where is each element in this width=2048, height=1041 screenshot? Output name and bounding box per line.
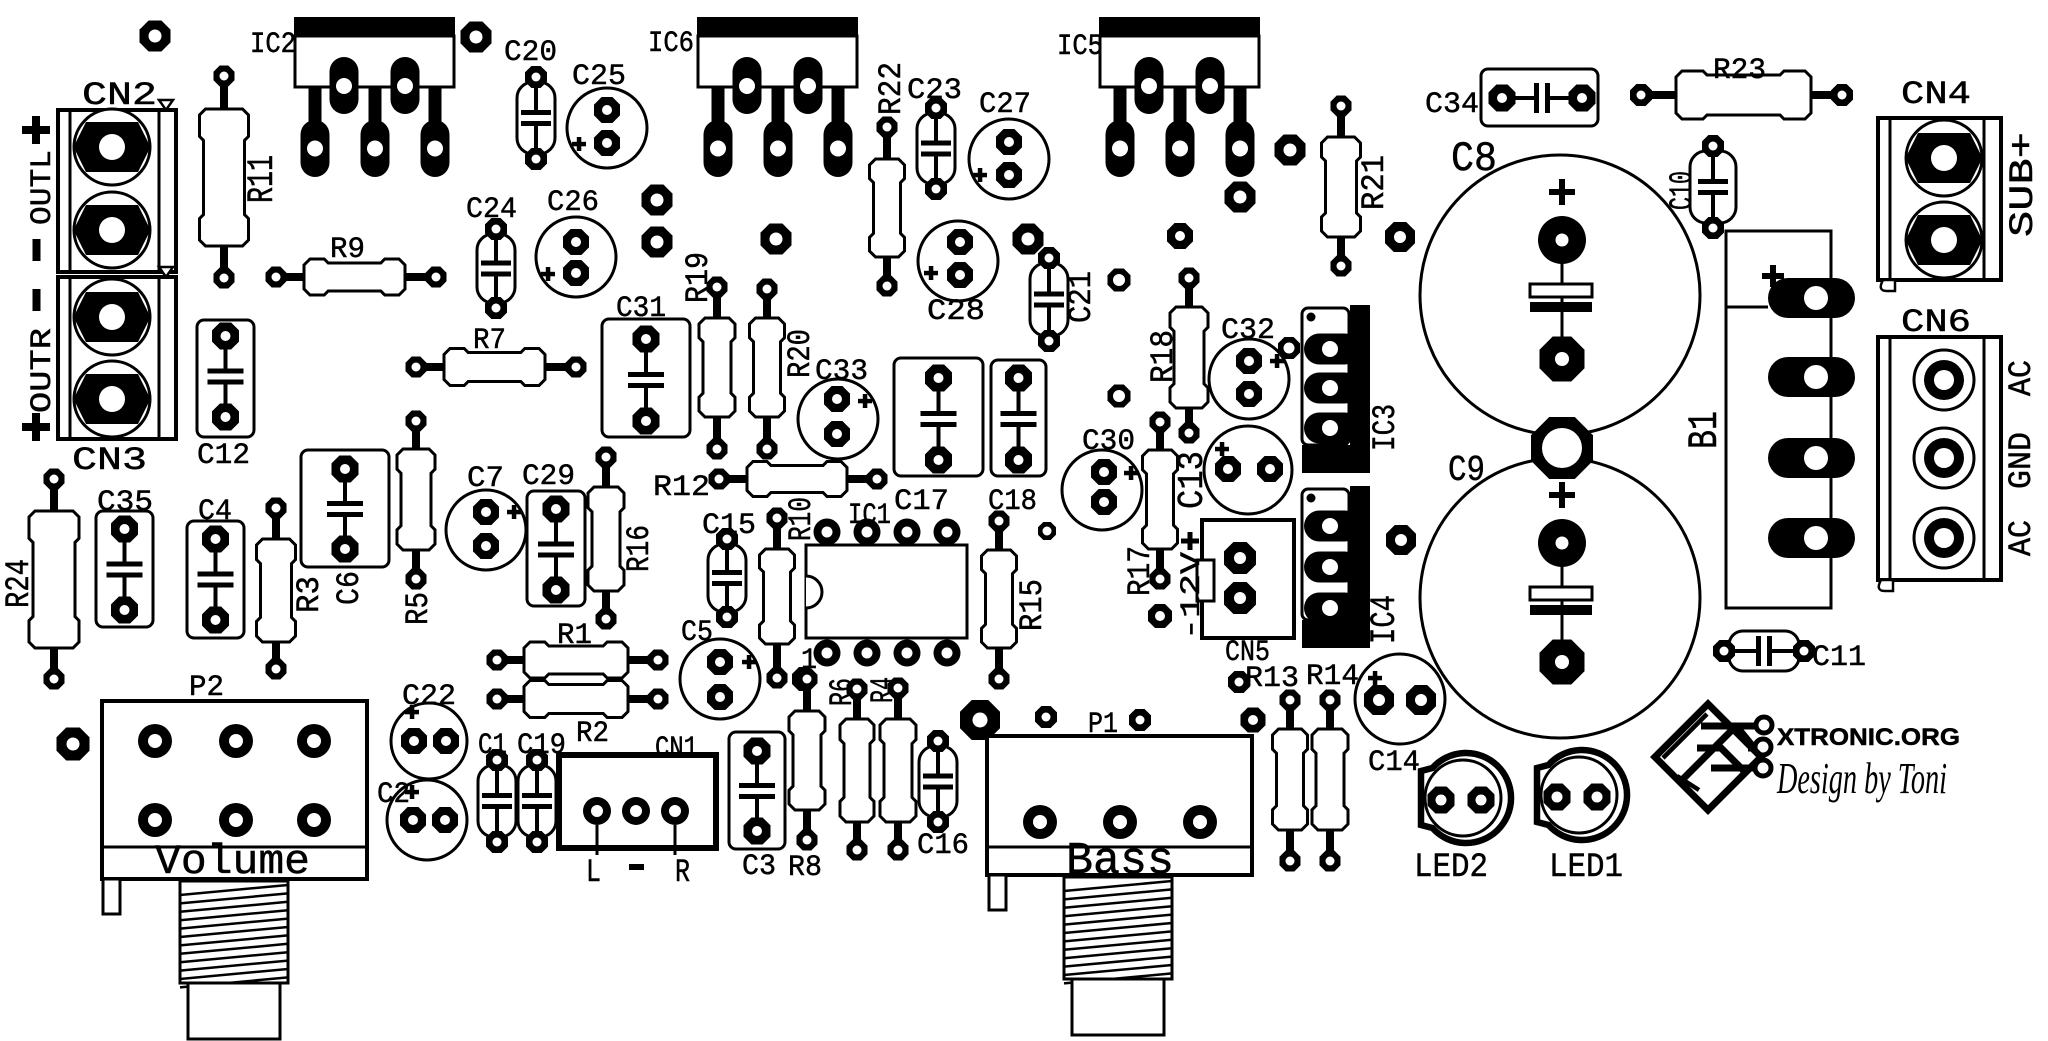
op-amp IC1 body [806, 545, 967, 638]
label R3 [291, 576, 328, 613]
svg-text:R15: R15 [1014, 579, 1051, 631]
svg-text:R5: R5 [400, 592, 437, 625]
terminal block CN6 body [1878, 337, 2001, 591]
label R10 [783, 497, 820, 541]
terminal block CN4 body [1878, 118, 2001, 291]
IC6 pads pins 2 4 [733, 57, 823, 114]
CN2 screw terminal pad 2 [74, 192, 151, 268]
resistor R15 [982, 511, 1017, 690]
svg-text:C28: C28 [927, 295, 985, 329]
xtronic logo emblem [1655, 704, 1772, 810]
pad below IC6 lower [642, 227, 673, 258]
svg-text:R11: R11 [242, 155, 284, 203]
IC4 pad pin 2 [1304, 552, 1360, 583]
svg-text:LED2: LED2 [1414, 849, 1488, 887]
P1 pad 2 [1103, 805, 1137, 839]
capacitor C27 [969, 119, 1049, 199]
capacitor C1 [478, 749, 516, 853]
svg-text:C35: C35 [97, 486, 153, 520]
pad left of C21 [1013, 224, 1044, 255]
svg-text:CN1: CN1 [655, 732, 698, 766]
svg-text:P2: P2 [189, 671, 224, 705]
polarity + for OUTL [22, 126, 50, 134]
C9 negative pad [1561, 615, 1564, 662]
CN2 polarity mark [159, 100, 173, 110]
IC1 pad pin 4 (bottom row) [934, 640, 961, 667]
CN6 screw terminal pad 2 (GND) [1914, 428, 1974, 488]
pad right of IC2 [461, 22, 492, 53]
svg-text:C20: C20 [504, 36, 557, 70]
power amplifier IC IC2 heatsink bar [294, 17, 455, 36]
CN6 screw terminal pad 1 (AC) [1914, 350, 1974, 410]
LED LED1 outline [1537, 750, 1627, 840]
pad below IC6 upper [642, 185, 673, 216]
voltage regulator IC3 body [1302, 305, 1370, 473]
svg-text:R22: R22 [873, 62, 910, 115]
B1 pad 3 [1768, 438, 1855, 478]
P1 shaft [1072, 979, 1164, 1035]
connector CN1 body [559, 755, 716, 848]
capacitor C3 [729, 732, 785, 849]
CN1 pad R [674, 825, 677, 855]
svg-text:R24: R24 [1, 559, 39, 608]
resistor R4 [880, 678, 916, 861]
svg-text:P1: P1 [1088, 708, 1118, 742]
svg-text:IC2: IC2 [250, 28, 296, 62]
label R11 [242, 155, 284, 203]
svg-text:IC5: IC5 [1057, 30, 1103, 64]
svg-text:C17: C17 [894, 485, 949, 519]
IC1 pad pin 3 (bottom row) [894, 640, 921, 667]
power amplifier IC IC2 body [295, 36, 454, 87]
net label OUTR [26, 328, 60, 413]
IC1 pad pin 7 (top row) [854, 519, 881, 546]
svg-text:R3: R3 [291, 576, 328, 613]
P2 threaded bushing [180, 881, 288, 987]
polarity + for OUTR [22, 423, 50, 431]
label R19 [680, 252, 717, 303]
P2 shaft [188, 983, 280, 1039]
resistor R21 [1322, 96, 1361, 277]
IC2 pads pins 2 4 [330, 57, 420, 114]
terminal block CN3 body [58, 277, 176, 439]
potentiometer P2 body [102, 701, 367, 879]
svg-text:R21: R21 [1356, 155, 1393, 210]
label R17 [1122, 546, 1159, 596]
svg-text:C33: C33 [815, 355, 868, 389]
IC1 pad pin 6 (top row) [894, 519, 921, 546]
P1 pad 3 [1183, 805, 1217, 839]
svg-text:C32: C32 [1221, 314, 1275, 348]
IC3 pad pin 2 [1304, 373, 1360, 404]
net label GND [2003, 432, 2040, 489]
net label OUTL [26, 150, 60, 225]
pad right of P1 [1241, 708, 1266, 733]
capacitor C17 [894, 358, 983, 476]
IC1 pad pin 1 (bottom row) [814, 640, 841, 667]
IC5 pads pins 1 3 5 [1106, 120, 1255, 177]
pad below CN5 minus [1148, 604, 1172, 628]
CN1 pad - [622, 797, 650, 825]
label C21 [1063, 271, 1100, 323]
pad left of C9 [1386, 525, 1416, 555]
label R22 [873, 62, 910, 115]
label IC4 [1365, 595, 1405, 644]
IC5 pads pins 2 4 [1135, 57, 1225, 114]
resistor R14 [1312, 690, 1348, 872]
svg-text:C22: C22 [402, 680, 456, 714]
resistor R6 [840, 679, 874, 861]
svg-text:C29: C29 [522, 460, 575, 494]
svg-text:C6: C6 [331, 571, 368, 605]
IC1 pad pin 2 (bottom row) [854, 640, 881, 667]
resistor R12 [709, 462, 888, 497]
svg-text:C11: C11 [1812, 641, 1866, 675]
svg-text:C18: C18 [988, 485, 1037, 519]
resistor R18 [1170, 268, 1208, 444]
svg-text:R: R [675, 854, 690, 891]
CN2 screw terminal pad 1 [74, 109, 151, 185]
svg-text:R17: R17 [1122, 546, 1159, 596]
net label AC bottom [2003, 520, 2040, 556]
svg-text:L: L [586, 854, 601, 891]
svg-text:R23: R23 [1713, 54, 1766, 88]
B1 pad 2 [1768, 357, 1855, 397]
bridge rectifier B1 body [1726, 231, 1831, 608]
IC4 pad pin 1 [1304, 511, 1360, 542]
label IC3 [1367, 404, 1404, 451]
svg-text:C34: C34 [1425, 88, 1479, 122]
resistor R13 [1273, 690, 1308, 872]
C9 polarity stripe [1530, 587, 1592, 600]
C9 positive pad [1561, 543, 1564, 608]
capacitor C25 [567, 88, 647, 168]
C9 polarity + [1549, 492, 1575, 498]
resistor R7 [406, 349, 587, 386]
svg-text:CN4: CN4 [1901, 76, 1971, 113]
P2 pad 1 [138, 724, 172, 758]
CN1 pin label - [629, 864, 644, 870]
svg-text:IC1: IC1 [848, 499, 891, 533]
svg-text:C27: C27 [979, 88, 1031, 122]
CN1 pad L [596, 825, 599, 855]
potentiometer P1 body [987, 736, 1252, 875]
C8 positive pad [1561, 240, 1564, 305]
label C10 [1664, 171, 1701, 210]
svg-text:R18: R18 [1145, 330, 1182, 383]
filter capacitor C9 outline [1420, 458, 1700, 738]
resistor R22 [870, 117, 905, 297]
filter capacitor C8 outline [1420, 155, 1700, 435]
IC1 pad pin 8 (top row) [814, 519, 841, 546]
resistor R1 [487, 642, 669, 678]
label R16 [621, 525, 658, 572]
C8 polarity stripe [1530, 284, 1592, 297]
LED2 anode pad [1468, 787, 1495, 814]
svg-text:IC6: IC6 [648, 27, 694, 61]
pad below IC5 pin3 [1225, 182, 1256, 213]
svg-text:C14: C14 [1368, 746, 1420, 780]
P1 pad 1 [1023, 805, 1057, 839]
label R21 [1356, 155, 1393, 210]
svg-text:C3: C3 [742, 850, 776, 884]
CN6 screw terminal pad 3 (AC) [1914, 508, 1974, 568]
polarity + for CN5 [1181, 539, 1199, 544]
capacitor C12 [197, 320, 254, 437]
power amplifier IC IC6 body [698, 36, 857, 87]
svg-text:C9: C9 [1448, 450, 1485, 491]
svg-text:AC: AC [2003, 520, 2040, 556]
svg-text:R8: R8 [788, 851, 822, 885]
label R24 [1, 559, 39, 608]
capacitor C32 [1209, 339, 1289, 419]
resistor R8 [789, 669, 825, 851]
pad below IC1 pin1 [792, 667, 816, 691]
LED LED2 outline [1421, 753, 1511, 843]
resistor R5 [397, 411, 435, 590]
via at IC3 pin1 [1278, 337, 1300, 359]
pad below IC5 pin2 [1167, 223, 1193, 249]
svg-text:R2: R2 [576, 717, 609, 751]
capacitor C2 [387, 780, 467, 860]
svg-text:C1: C1 [478, 729, 507, 763]
resistor R10 [760, 508, 795, 689]
capacitor C10 [1690, 135, 1736, 239]
svg-text:C4: C4 [198, 495, 232, 529]
B1 polarity + [1762, 273, 1784, 279]
capacitor C29 [527, 491, 585, 606]
svg-text:-12V: -12V [1177, 552, 1208, 640]
P1 threaded bushing [1064, 877, 1172, 983]
svg-text:R4: R4 [865, 677, 902, 703]
B1 pad 1 [1768, 278, 1855, 318]
P2 pad 3 [297, 724, 331, 758]
mounting pad top-left [140, 21, 171, 52]
mounting pad bottom-left [57, 728, 90, 761]
capacitor C5 [680, 639, 760, 719]
svg-text:C21: C21 [1063, 271, 1100, 323]
pad left of C8 [1385, 222, 1415, 252]
CN3 screw terminal pad 1 [74, 279, 151, 355]
via right of C18 [1038, 522, 1056, 540]
CN4 screw terminal pad 2 [1906, 202, 1983, 278]
CN5 pad - pin [1224, 582, 1256, 614]
capacitor C6 [301, 450, 389, 567]
CN4 screw terminal pad 1 [1906, 120, 1983, 196]
svg-text:C30: C30 [1082, 425, 1135, 459]
IC4 pad pin 3 [1304, 593, 1360, 624]
P2 pad 5 [219, 803, 253, 837]
pad right of IC5 [1275, 135, 1306, 166]
resistor R9 [266, 259, 447, 295]
resistor R2 [487, 681, 669, 718]
resistor R19 [699, 277, 735, 460]
LED1 anode pad [1584, 784, 1611, 811]
LED1 cathode pad [1544, 784, 1571, 811]
svg-text:IC4: IC4 [1365, 595, 1405, 644]
C8 negative pad [1561, 312, 1564, 359]
resistor R16 [588, 447, 624, 630]
resistor R23 [1630, 71, 1853, 119]
svg-text:C23: C23 [907, 74, 962, 108]
capacitor C14 [1355, 654, 1445, 744]
svg-text:C16: C16 [917, 829, 969, 863]
capacitor C23 [917, 97, 955, 200]
IC2 pin stems [309, 86, 442, 124]
pad above P1 left [1035, 706, 1057, 728]
CN3 screw terminal pad 2 [74, 361, 151, 437]
pad below IC6 pin3 [761, 224, 792, 255]
svg-text:C26: C26 [547, 186, 599, 220]
svg-text:Design by Toni: Design by Toni [1776, 754, 1947, 803]
net label SUB+ [2005, 132, 2043, 237]
capacitor C13 [1204, 426, 1292, 514]
power amplifier IC IC6 heatsink bar [697, 17, 858, 36]
voltage regulator IC4 body [1302, 486, 1370, 648]
svg-text:R12: R12 [653, 471, 710, 505]
svg-text:CN2: CN2 [82, 77, 157, 114]
power amplifier IC IC5 body [1100, 36, 1259, 87]
capacitor C19 [518, 749, 556, 853]
svg-text:SUB+: SUB+ [2005, 132, 2043, 237]
via right of R18 [1108, 385, 1131, 408]
pad above P1 right [1129, 709, 1151, 731]
P1 mounting tab [989, 875, 1006, 910]
IC2 pads pins 1 3 5 [301, 120, 450, 177]
capacitor C22 [391, 703, 467, 779]
svg-text:C25: C25 [572, 60, 626, 94]
label B1 [1681, 411, 1729, 449]
LED2 cathode pad [1428, 787, 1455, 814]
net label -12V [1177, 552, 1208, 640]
svg-text:C31: C31 [616, 292, 666, 326]
svg-text:GND: GND [2003, 432, 2040, 489]
svg-text:OUTL: OUTL [26, 150, 60, 225]
resistor R11 [200, 66, 249, 289]
resistor R3 [257, 498, 296, 680]
pad left of P1 [960, 700, 1000, 740]
svg-text:CN3: CN3 [72, 442, 147, 479]
svg-text:R20: R20 [782, 329, 819, 378]
svg-text:C2: C2 [377, 778, 410, 812]
capacitor C15 [708, 528, 746, 628]
label R20 [782, 329, 819, 378]
svg-text:IC3: IC3 [1367, 404, 1404, 451]
IC5 pin stems [1114, 86, 1247, 124]
capacitor C28 [918, 221, 998, 301]
capacitor C18 [991, 360, 1046, 476]
capacitor C35 [96, 511, 153, 627]
central mounting hole pad [1531, 417, 1593, 479]
capacitor C34 [1481, 69, 1598, 126]
via above C17 [1108, 269, 1131, 292]
svg-text:R14: R14 [1306, 660, 1359, 694]
svg-text:C12: C12 [197, 439, 250, 473]
svg-text:C7: C7 [467, 462, 504, 496]
polarity - for OUTL [33, 239, 41, 261]
connector CN5 body [1197, 520, 1294, 638]
IC1 pad pin 5 (top row) [934, 519, 961, 546]
svg-text:C15: C15 [702, 509, 756, 543]
svg-text:R19: R19 [680, 252, 717, 303]
capacitor C30 [1062, 450, 1142, 530]
svg-text:C24: C24 [466, 193, 517, 227]
label C13 [1172, 451, 1213, 509]
capacitor C20 [517, 66, 555, 170]
svg-text:1: 1 [801, 644, 817, 678]
svg-text:R1: R1 [557, 619, 592, 653]
svg-text:C8: C8 [1451, 135, 1497, 183]
CN3 polarity mark [159, 267, 173, 277]
capacitor C7 [446, 490, 526, 570]
label R15 [1014, 579, 1051, 631]
resistor R24 [29, 469, 79, 690]
capacitor C21 [1030, 247, 1068, 352]
svg-text:AC: AC [2003, 360, 2040, 396]
resistor R20 [750, 279, 785, 460]
svg-text:CN6: CN6 [1901, 304, 1971, 341]
svg-text:LED1: LED1 [1549, 849, 1623, 887]
polarity - for OUTR [33, 289, 41, 311]
CN5 pad + pin [1224, 542, 1256, 574]
P2 pad 2 [219, 724, 253, 758]
resistor R17 [1143, 412, 1178, 590]
svg-text:B1: B1 [1681, 411, 1729, 449]
B1 pad 4 [1768, 518, 1855, 558]
label R18 [1145, 330, 1182, 383]
terminal block CN2 body [58, 110, 176, 272]
capacitor C33 [798, 379, 878, 459]
svg-text:R9: R9 [330, 233, 365, 267]
capacitor C26 [536, 217, 616, 297]
capacitor C24 [477, 218, 515, 319]
svg-text:XTRONIC.ORG: XTRONIC.ORG [1777, 724, 1960, 751]
svg-text:R7: R7 [473, 324, 506, 358]
label C6 [331, 571, 368, 605]
capacitor C16 [919, 730, 957, 833]
P2 mounting tab [103, 879, 120, 914]
pad left of R13 [1228, 671, 1250, 693]
P2 pad 4 [138, 803, 172, 837]
svg-text:Volume: Volume [155, 838, 310, 886]
C8 polarity + [1549, 189, 1575, 195]
label R4 [865, 677, 902, 703]
capacitor C31 [602, 319, 690, 437]
IC6 pin stems [712, 86, 845, 124]
svg-text:CN5: CN5 [1225, 636, 1270, 670]
net label AC top [2003, 360, 2040, 396]
svg-text:C5: C5 [681, 616, 713, 650]
label R5 [400, 592, 437, 625]
P2 pad 6 [297, 803, 331, 837]
svg-text:C13: C13 [1172, 451, 1213, 509]
capacitor C4 [187, 521, 244, 638]
capacitor C11 [1713, 631, 1815, 671]
label R6 [824, 678, 861, 706]
IC3 pad pin 3 [1304, 413, 1360, 444]
power amplifier IC IC5 heatsink bar [1099, 17, 1260, 36]
svg-text:C10: C10 [1664, 171, 1701, 210]
svg-text:R6: R6 [824, 678, 861, 706]
svg-text:OUTR: OUTR [26, 328, 60, 413]
svg-text:R16: R16 [621, 525, 658, 572]
IC3 pad pin 1 [1304, 334, 1360, 365]
IC6 pads pins 1 3 5 [704, 120, 853, 177]
